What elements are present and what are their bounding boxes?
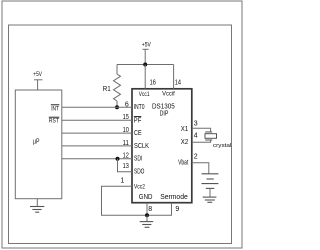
IC pin label GND: [139, 194, 153, 201]
pin number 1: [120, 177, 124, 184]
svg-text:SDO: SDO: [134, 169, 145, 176]
+5V supply symbol at uP: [33, 72, 42, 90]
svg-text:SDI: SDI: [134, 156, 142, 163]
IC pin label X1: [181, 126, 188, 133]
wire Vbat (pin 2) to battery: [192, 163, 209, 174]
pin number 8: [148, 206, 152, 213]
wire pin14 stub: [173, 65, 175, 89]
IC pin label INT0: [134, 104, 145, 111]
IC pin label Vbat: [178, 159, 188, 166]
svg-text:CE: CE: [134, 130, 142, 137]
svg-text:DIP: DIP: [160, 110, 169, 117]
pin number 4: [194, 133, 198, 140]
svg-text:14: 14: [175, 80, 181, 87]
junction dot rail / pin16: [143, 63, 147, 67]
pin number 6: [125, 101, 129, 108]
wire X1 (pin 3) to crystal: [192, 128, 211, 132]
pin number 15: [123, 114, 129, 121]
svg-text:Sermode: Sermode: [160, 194, 188, 201]
svg-text:1: 1: [120, 177, 124, 184]
svg-text:Vcc2: Vcc2: [134, 184, 145, 191]
wire to CE (pin 10): [62, 132, 132, 134]
pin number 14: [175, 80, 181, 87]
svg-text:X1: X1: [181, 126, 188, 133]
svg-text:+5V: +5V: [142, 42, 151, 48]
wire Sermode (pin 9) stub: [147, 203, 172, 216]
svg-text:2: 2: [194, 154, 198, 161]
svg-text:3: 3: [194, 120, 198, 127]
uP INT pin label (overlined): [51, 105, 60, 113]
crystal label: [213, 143, 231, 149]
IC pin label SDI: [134, 156, 142, 163]
svg-text:INT: INT: [51, 106, 59, 113]
svg-text:Vccif: Vccif: [162, 91, 175, 98]
svg-text:GND: GND: [139, 194, 153, 201]
IC package label DIP: [160, 110, 169, 117]
svg-text:8: 8: [148, 206, 152, 213]
uP label: [33, 138, 40, 145]
IC pin label CE: [134, 130, 142, 137]
svg-text:INT0: INT0: [134, 104, 145, 111]
outer border frame: [2, 1, 242, 248]
svg-text:Vcc1: Vcc1: [139, 91, 150, 98]
IC pin label Vcc2: [134, 184, 145, 191]
svg-text:SCLK: SCLK: [134, 143, 149, 150]
svg-text:10: 10: [123, 127, 129, 134]
svg-text:+5V: +5V: [33, 72, 42, 78]
resistor label R1: [103, 86, 111, 93]
junction dot ground node: [145, 213, 149, 217]
svg-text:11: 11: [123, 140, 129, 147]
uP RST pin label (overlined): [49, 117, 60, 124]
svg-text:13: 13: [123, 163, 129, 170]
microprocessor U-uP box: [15, 90, 62, 199]
svg-text:crystal: crystal: [213, 143, 231, 149]
wire SDI-SDO jumper: [118, 159, 133, 172]
wire INT to INT0 (pin 6): [62, 106, 132, 108]
svg-text:Vbat: Vbat: [178, 159, 188, 166]
resistor R1: [114, 65, 121, 108]
ground below battery: [203, 197, 217, 202]
wire pin16 stub: [144, 65, 146, 89]
IC pin label X2: [181, 139, 188, 146]
junction dot R1 / INT0 wire: [115, 105, 119, 109]
inner schematic frame: [9, 25, 232, 244]
wire to SDI (pin 12): [62, 158, 132, 160]
svg-text:RST: RST: [49, 118, 59, 125]
wire to SCLK (pin 11): [62, 145, 132, 147]
pin number 16: [150, 80, 156, 87]
svg-text:DS1305: DS1305: [152, 103, 175, 110]
wire Vcc2 (pin 1) to ground rail: [102, 186, 148, 215]
IC pin label SCLK: [134, 143, 149, 150]
wire X2 (pin 4) to crystal: [192, 140, 211, 142]
pin number 3: [194, 120, 198, 127]
DS1305 IC U1 box: [132, 89, 192, 203]
ground at uP: [30, 199, 44, 213]
svg-text:16: 16: [150, 80, 156, 87]
IC label Vccif (pin 14, inside top-right): [162, 91, 175, 98]
IC pin label SDO: [134, 169, 145, 176]
svg-text:PF: PF: [134, 118, 142, 125]
crystal X1 (32kHz): [205, 132, 217, 140]
+5V supply symbol top center: [142, 42, 151, 64]
svg-text:4: 4: [194, 133, 198, 140]
ground below pin 8: [140, 215, 154, 227]
battery B1 (backup cell): [202, 174, 219, 197]
IC pin label Sermode: [160, 194, 188, 201]
wire GND (pin 8) stub: [146, 203, 148, 216]
svg-text:9: 9: [175, 206, 179, 213]
IC label Vcc1 (pin 16, inside top-left): [139, 91, 150, 98]
svg-text:6: 6: [125, 101, 129, 108]
svg-text:X2: X2: [181, 139, 188, 146]
pin number 2: [194, 154, 198, 161]
IC pin label PF (overlined): [134, 117, 142, 125]
pin number 13: [123, 163, 129, 170]
wire +5V rail horizontal: [117, 64, 174, 66]
svg-text:12: 12: [123, 153, 129, 160]
IC part name DS1305: [152, 103, 175, 110]
svg-text:µP: µP: [33, 138, 40, 145]
pin number 9: [175, 206, 179, 213]
wire RST to PF (pin 15): [62, 119, 132, 121]
junction dot SDI / SDO jumper: [116, 157, 120, 161]
svg-text:R1: R1: [103, 86, 111, 93]
svg-text:15: 15: [123, 114, 129, 121]
pin number 10: [123, 127, 129, 134]
pin number 12: [123, 153, 129, 160]
pin number 11: [123, 140, 129, 147]
